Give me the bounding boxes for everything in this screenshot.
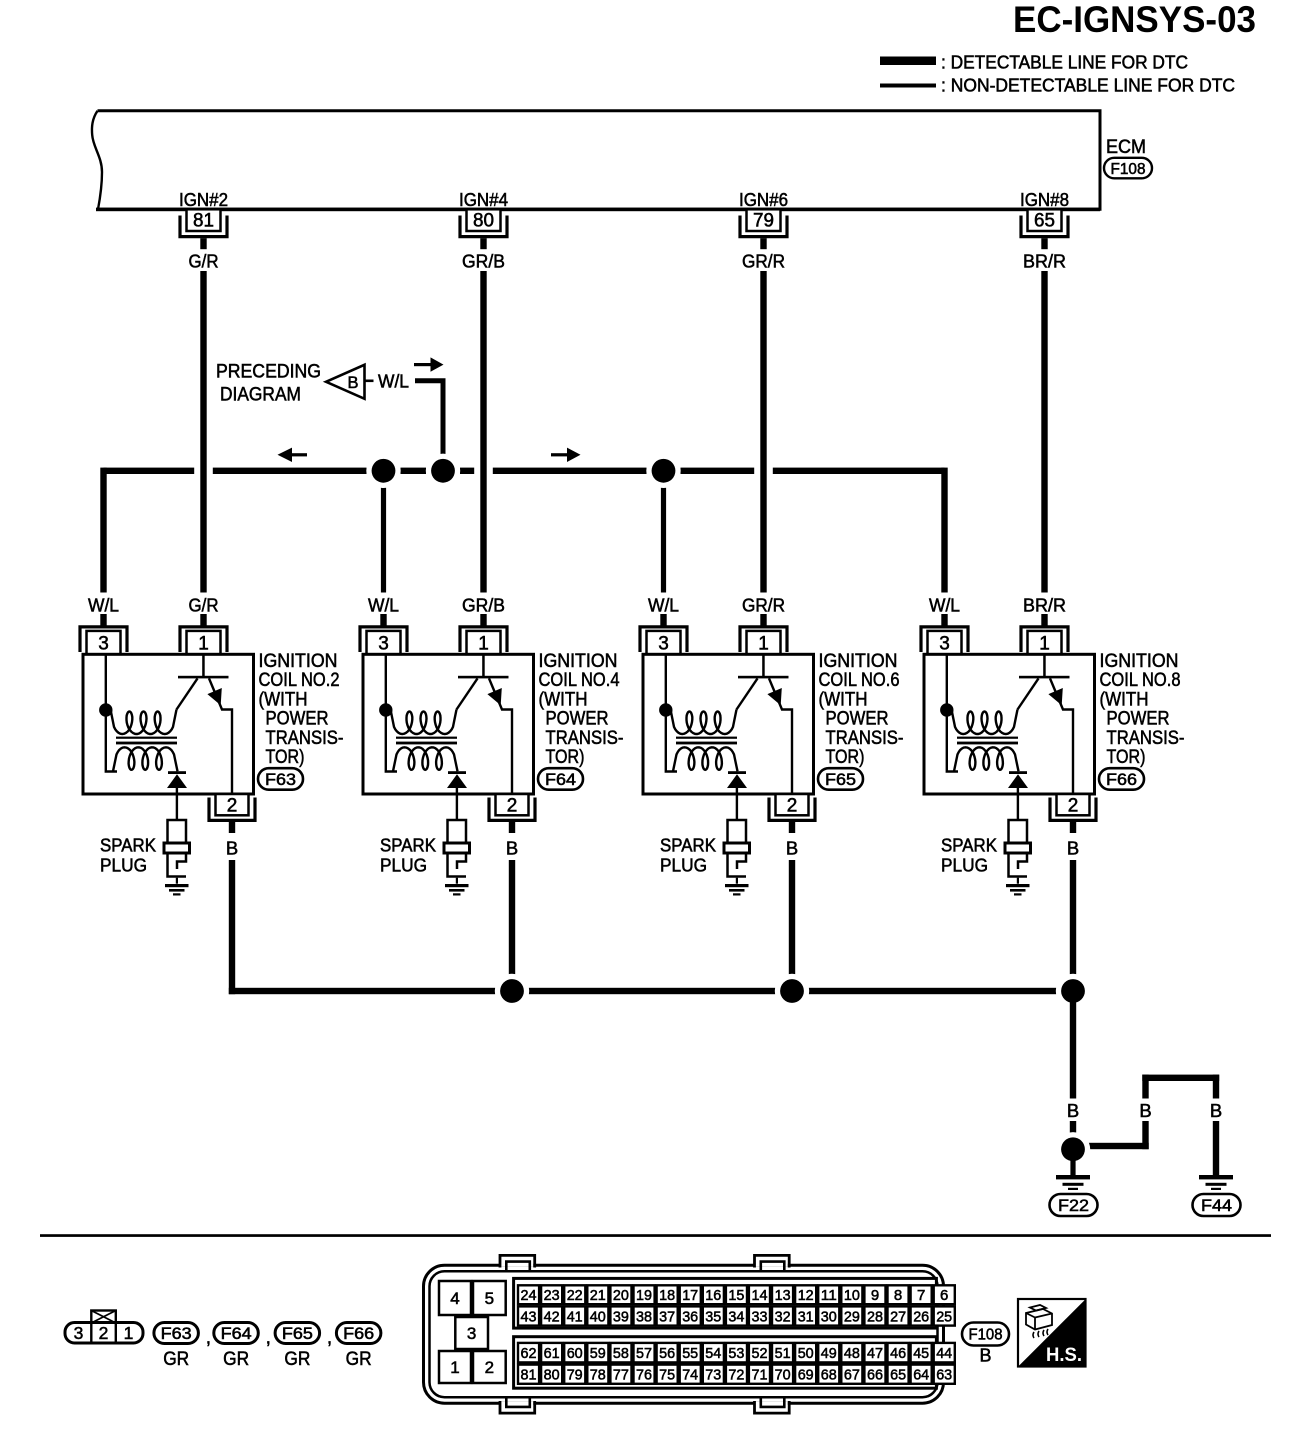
svg-text:59: 59 [590,1345,606,1362]
arrow right on bus [551,453,571,456]
svg-text:F66: F66 [343,1325,374,1343]
svg-text:B: B [226,838,238,859]
diode bar (3) [1009,771,1027,774]
power transistor base bar (2) [738,676,789,679]
wire B down from ground bus [1070,991,1076,1099]
H.S. logo box [1018,1299,1086,1367]
svg-text:52: 52 [752,1345,768,1362]
svg-text:1: 1 [758,634,769,655]
stub into pin3 (0) [100,614,106,627]
svg-text:B: B [1210,1100,1222,1121]
ECM pin 79 bracket [740,216,787,237]
core bar lower (2) [676,742,737,745]
coil pin 2 stub (3) [1070,822,1076,833]
label W/L above coil pin3 (0) [80,593,128,615]
spark plug symbol (1) [448,820,467,843]
svg-text:29: 29 [844,1308,860,1325]
svg-text:30: 30 [821,1308,837,1325]
svg-text:2: 2 [787,796,798,817]
svg-text:5: 5 [485,1289,494,1308]
svg-text:2: 2 [227,796,238,817]
ECM pin 80 stub [480,238,486,249]
connector F64 oval (bottom row) [214,1323,258,1344]
svg-text:IGN#2: IGN#2 [179,189,228,210]
svg-text:3: 3 [939,634,950,655]
svg-text:(WITH: (WITH [259,689,308,710]
svg-text:IGNITION: IGNITION [1100,651,1179,672]
svg-text:3: 3 [74,1323,84,1343]
diode triangle (1) [447,774,467,788]
power transistor base wire (0) [202,654,205,677]
svg-text:F22: F22 [1058,1196,1089,1215]
svg-text:31: 31 [798,1308,814,1325]
svg-text:58: 58 [613,1345,629,1362]
separator line [40,1234,1271,1237]
svg-text:SPARK: SPARK [380,835,437,856]
wire diode to spark plug (3) [1017,788,1019,820]
ECM pin 65 bracket [1021,216,1068,237]
svg-text:BR/R: BR/R [1023,595,1066,616]
diode bar (1) [448,771,466,774]
ECM pin 81 box [187,209,221,231]
diode triangle (3) [1008,774,1028,788]
svg-text:6: 6 [940,1287,948,1304]
svg-text:60: 60 [567,1345,583,1362]
svg-text:B: B [979,1346,991,1366]
svg-text:F108: F108 [969,1327,1003,1344]
wire W/L bus right corner down [941,468,947,594]
coil pin 3 box (0) [87,631,121,654]
connector F63 oval (bottom row) [154,1323,199,1344]
connector F66 oval [1099,768,1144,790]
svg-text:F63: F63 [161,1325,192,1343]
ECM connector pin grid cells (rows 24-6, 43-25, 62-44, 81-63) [518,1285,539,1304]
wire junction to middle branch [1073,1143,1149,1149]
wire ground bus B [229,988,1076,994]
svg-text:TOR): TOR) [826,747,865,768]
svg-text:47: 47 [867,1345,883,1362]
wire B to junction dot [1070,1121,1076,1149]
wire middle branch vertical lower [1142,1121,1148,1149]
primary winding (3) [952,710,1018,735]
svg-text:GR: GR [346,1348,372,1370]
svg-text:COIL NO.2: COIL NO.2 [259,670,340,691]
svg-text:39: 39 [613,1308,629,1325]
svg-text:POWER: POWER [826,709,889,730]
wire B from coil no.6 to ground bus [789,860,795,994]
label W/L above coil pin3 (2) [640,593,688,615]
svg-text:F64: F64 [545,771,576,789]
coil internal junction dot (3) [940,703,953,716]
power transistor collector (0) [209,678,232,793]
svg-text:48: 48 [844,1345,860,1362]
svg-text:B: B [347,374,358,392]
ECM bottom edge thick [96,208,1100,212]
coil pin 1 bracket (3) [1021,627,1068,652]
svg-text:IGNITION: IGNITION [819,651,898,672]
svg-text:H.S.: H.S. [1046,1345,1082,1366]
svg-text:(WITH: (WITH [819,689,868,710]
svg-text:34: 34 [728,1308,744,1325]
wire diode to spark plug (1) [456,788,458,820]
svg-text:COIL NO.6: COIL NO.6 [819,670,900,691]
svg-text:DIAGRAM: DIAGRAM [220,385,301,406]
svg-text:65: 65 [1034,211,1055,232]
wire diode to spark plug (2) [736,788,738,820]
label W/L above coil pin3 (3) [921,593,969,615]
svg-text:SPARK: SPARK [100,835,157,856]
core bar upper (1) [396,737,457,739]
svg-text:3: 3 [467,1324,476,1343]
connector F65 oval [818,768,863,790]
ECM pin 79 stub [760,238,766,249]
ECM pin 81 bracket [180,216,227,237]
coil pin 2 box (2) [776,794,809,815]
power transistor base wire (1) [482,654,485,677]
svg-text:POWER: POWER [1107,709,1170,730]
svg-text:TRANSIS-: TRANSIS- [546,728,624,749]
svg-text:62: 62 [521,1345,537,1362]
small connector crossed box [91,1311,116,1324]
diode triangle (2) [727,774,747,788]
svg-text:56: 56 [659,1345,675,1362]
ECM connector pin grid upper block [514,1278,937,1328]
svg-text:,: , [327,1328,332,1349]
connector F64 oval [538,768,583,790]
svg-text:F65: F65 [282,1325,313,1343]
svg-text:F44: F44 [1201,1196,1232,1215]
svg-text:43: 43 [521,1308,537,1325]
coil pin 1 bracket (0) [180,627,227,652]
coil internal junction dot (2) [659,703,672,716]
ECM pin 65 box [1028,209,1062,231]
wire W/L feed from preceding diagram [415,381,443,471]
connector F63 oval [258,768,303,790]
svg-text:45: 45 [913,1345,929,1362]
power transistor collector (3) [1050,678,1073,793]
ground symbol F22 [1056,1175,1090,1179]
svg-text:80: 80 [544,1367,560,1384]
coil internal junction dot (1) [379,703,392,716]
svg-text:POWER: POWER [546,709,609,730]
svg-text:4: 4 [450,1289,459,1308]
ignition coil no.8 box [924,654,1095,794]
svg-text:COIL NO.4: COIL NO.4 [539,670,620,691]
spark plug symbol (3) [1009,820,1028,843]
label GR/B above coil pin1 [458,593,510,615]
core bar upper (0) [116,737,177,739]
coil pin 2 stub (1) [509,822,515,833]
ignition coil no.2 box [83,654,254,794]
svg-text:24: 24 [521,1287,537,1304]
svg-text:(WITH: (WITH [1100,689,1149,710]
svg-text:IGN#6: IGN#6 [739,189,788,210]
svg-text:67: 67 [844,1367,860,1384]
coil pin 2 bracket (0) [209,798,255,821]
svg-text:W/L: W/L [378,371,409,392]
svg-text:,: , [266,1328,271,1349]
power transistor emitter to winding (2) [737,678,758,709]
collector arrow head (2) [767,688,781,705]
primary winding (2) [671,710,737,735]
svg-text:68: 68 [821,1367,837,1384]
arrow left on bus [281,453,307,456]
core bar lower (3) [957,742,1018,745]
svg-text:G/R: G/R [189,251,219,272]
power transistor collector (1) [489,678,512,793]
svg-text:37: 37 [659,1308,675,1325]
svg-text:72: 72 [728,1367,744,1384]
svg-text:80: 80 [473,211,494,232]
svg-text:57: 57 [636,1345,652,1362]
svg-text:55: 55 [682,1345,698,1362]
svg-text:26: 26 [913,1308,929,1325]
svg-text:1: 1 [1039,634,1050,655]
wire GR/R from ECM pin 79 down [760,271,766,594]
ECM pin 79 box [747,209,781,231]
diode triangle (0) [167,774,187,788]
svg-text:PRECEDING: PRECEDING [216,362,321,383]
label BR/R above coil pin1 [1019,593,1071,615]
spark plug symbol (2) [728,820,747,843]
svg-text:GR/B: GR/B [462,251,505,272]
ignition coil no.6 box [643,654,814,794]
wire diode to spark plug (0) [176,788,178,820]
svg-text:W/L: W/L [368,595,399,616]
power transistor emitter to winding (3) [1018,678,1039,709]
wire W/L drop to coil no.4 [381,471,386,594]
svg-text:COIL NO.8: COIL NO.8 [1100,670,1181,691]
wire middle branch vertical upper [1142,1075,1148,1099]
svg-text:54: 54 [705,1345,721,1362]
svg-text:SPARK: SPARK [660,835,717,856]
svg-text:76: 76 [636,1367,652,1384]
label W/L above coil pin3 (1) [360,593,408,615]
svg-text:TOR): TOR) [1107,747,1146,768]
coil pin 2 bracket (1) [489,798,535,821]
svg-text:71: 71 [752,1367,768,1384]
svg-text:49: 49 [821,1345,837,1362]
svg-text:2: 2 [485,1358,494,1377]
svg-text:B: B [506,838,518,859]
coil pin 3 box (1) [367,631,401,654]
coil pin 3 box (2) [647,631,681,654]
svg-text:8: 8 [894,1287,902,1304]
svg-text:TRANSIS-: TRANSIS- [826,728,904,749]
coil pin 1 box (2) [747,631,781,654]
arrow right above W/L feed [414,363,432,366]
svg-text:50: 50 [798,1345,814,1362]
junction dot ground bus at coil no.8 [1056,974,1090,1008]
line triangle to W/L label [365,380,374,383]
connector F22 oval [1050,1194,1098,1216]
svg-text:40: 40 [590,1308,606,1325]
coil pin 3 bracket (3) [921,627,968,652]
svg-text:(WITH: (WITH [539,689,588,710]
svg-text:10: 10 [844,1287,860,1304]
ECM pin 80 box [467,209,501,231]
svg-text:19: 19 [636,1287,652,1304]
svg-text:74: 74 [682,1367,698,1384]
power transistor emitter to winding (1) [457,678,478,709]
svg-text:POWER: POWER [266,709,329,730]
svg-text:F108: F108 [1111,161,1146,178]
svg-text:11: 11 [821,1287,837,1304]
coil pin 1 bracket (2) [740,627,787,652]
power transistor collector (2) [769,678,792,793]
wire right branch to ground [1213,1121,1219,1175]
ECM connector pin grid lower block [514,1337,937,1389]
junction dot on W/L bus at x=664 [646,454,680,488]
stub into pin1 (0) [200,614,206,627]
svg-text:PLUG: PLUG [660,855,707,876]
svg-text:TOR): TOR) [266,747,305,768]
svg-text:9: 9 [871,1287,879,1304]
coil pin 3 bracket (0) [80,627,127,652]
coil pin 1 box (3) [1028,631,1062,654]
stub into pin1 (1) [480,614,486,627]
ECM pin 81 stub [200,238,206,249]
svg-text:15: 15 [728,1287,744,1304]
svg-text:TOR): TOR) [546,747,585,768]
svg-text:77: 77 [613,1367,629,1384]
ECM connector bottom tab at x=500 [501,1402,533,1413]
svg-text:7: 7 [917,1287,925,1304]
svg-text:21: 21 [590,1287,606,1304]
connector F108 oval (bottom) [962,1323,1009,1346]
secondary winding (1) [393,747,458,771]
stub into pin1 (3) [1041,614,1047,627]
svg-text:12: 12 [798,1287,814,1304]
junction dot ground bus at coil no.4 [495,974,529,1008]
svg-text:TRANSIS-: TRANSIS- [266,728,344,749]
ECM connector bottom tab at x=754.5 [756,1402,788,1413]
power transistor base bar (3) [1019,676,1070,679]
label GR/R above coil pin1 [738,593,790,615]
svg-text:3: 3 [658,634,669,655]
svg-text:78: 78 [590,1367,606,1384]
diode bar (0) [168,771,186,774]
primary winding (1) [391,710,457,735]
collector arrow head (0) [207,688,221,705]
svg-text:1: 1 [124,1323,134,1343]
svg-text:70: 70 [775,1367,791,1384]
off-page connector triangle B [326,365,365,399]
svg-text:1: 1 [450,1358,459,1377]
svg-text:PLUG: PLUG [941,855,988,876]
svg-text:75: 75 [659,1367,675,1384]
wire BR/R from ECM pin 65 down [1041,271,1047,594]
core bar lower (0) [116,742,177,745]
secondary winding (3) [954,747,1019,771]
svg-text:B: B [786,838,798,859]
svg-text:46: 46 [890,1345,906,1362]
ECM connector outer outline [424,1265,944,1403]
coil pin 2 box (3) [1057,794,1090,815]
svg-text:G/R: G/R [189,595,219,616]
svg-text:81: 81 [193,211,214,232]
wire GR/B from ECM pin 80 down [480,271,486,594]
svg-text:65: 65 [890,1367,906,1384]
ECM connector top tab at x=500 [501,1256,533,1267]
coil pin 1 box (1) [467,631,501,654]
coil pin 1 bracket (1) [460,627,507,652]
svg-text:17: 17 [682,1287,698,1304]
svg-text:53: 53 [728,1345,744,1362]
ground symbol F44 [1199,1175,1233,1179]
svg-text:EC-IGNSYS-03: EC-IGNSYS-03 [1013,0,1256,40]
svg-text:B: B [1067,1100,1079,1121]
stub into pin3 (3) [941,614,947,627]
svg-text:18: 18 [659,1287,675,1304]
svg-text:PLUG: PLUG [380,855,427,876]
collector arrow head (1) [487,688,501,705]
svg-text:IGNITION: IGNITION [259,651,338,672]
stub into pin3 (1) [380,614,386,627]
svg-text:64: 64 [913,1367,929,1384]
power transistor emitter to winding (0) [177,678,198,709]
core bar upper (3) [957,737,1018,739]
svg-text:BR/R: BR/R [1023,251,1066,272]
svg-text:63: 63 [936,1367,952,1384]
connector F44 oval [1193,1194,1241,1216]
svg-text:69: 69 [798,1367,814,1384]
svg-text:35: 35 [705,1308,721,1325]
svg-text:14: 14 [752,1287,768,1304]
ECM connector cell 1 [439,1351,471,1383]
wire W/L bus left corner down [100,468,106,594]
wire G/R from ECM pin 81 down [200,271,206,594]
coil internal left wire (1) [386,654,397,771]
svg-text:51: 51 [775,1345,791,1362]
svg-text:GR/R: GR/R [742,251,785,272]
svg-text:32: 32 [775,1308,791,1325]
power transistor base wire (3) [1043,654,1046,677]
svg-text:: DETECTABLE LINE FOR DTC: : DETECTABLE LINE FOR DTC [941,53,1188,73]
svg-text:33: 33 [752,1308,768,1325]
svg-text:SPARK: SPARK [941,835,998,856]
coil pin 2 bracket (2) [769,798,815,821]
svg-text:41: 41 [567,1308,583,1325]
coil pin 2 stub (0) [229,822,235,833]
coil pin 1 box (0) [187,631,221,654]
small connector 3-2-1 [65,1323,143,1344]
svg-text:GR/R: GR/R [742,595,785,616]
connector F108 (ECM) [1104,158,1152,179]
svg-text:3: 3 [378,634,389,655]
spark plug symbol (0) [168,820,187,843]
svg-text:22: 22 [567,1287,583,1304]
svg-text:GR: GR [163,1348,189,1370]
svg-text:20: 20 [613,1287,629,1304]
svg-text:2: 2 [1068,796,1079,817]
ECM connector top tab at x=754.5 [756,1256,788,1267]
coil internal left wire (2) [666,654,677,771]
wire right branch vertical upper [1213,1075,1219,1099]
svg-text:79: 79 [753,211,774,232]
power transistor base bar (0) [178,676,229,679]
svg-text:IGN#8: IGN#8 [1020,189,1069,210]
svg-text:79: 79 [567,1367,583,1384]
svg-text:38: 38 [636,1308,652,1325]
wire W/L bus segment [104,468,195,474]
svg-text:28: 28 [867,1308,883,1325]
junction dot on W/L bus at x=443 [426,454,460,488]
coil internal junction dot (0) [99,703,112,716]
svg-text:TRANSIS-: TRANSIS- [1107,728,1185,749]
svg-text:23: 23 [544,1287,560,1304]
ECM box [98,111,1101,210]
